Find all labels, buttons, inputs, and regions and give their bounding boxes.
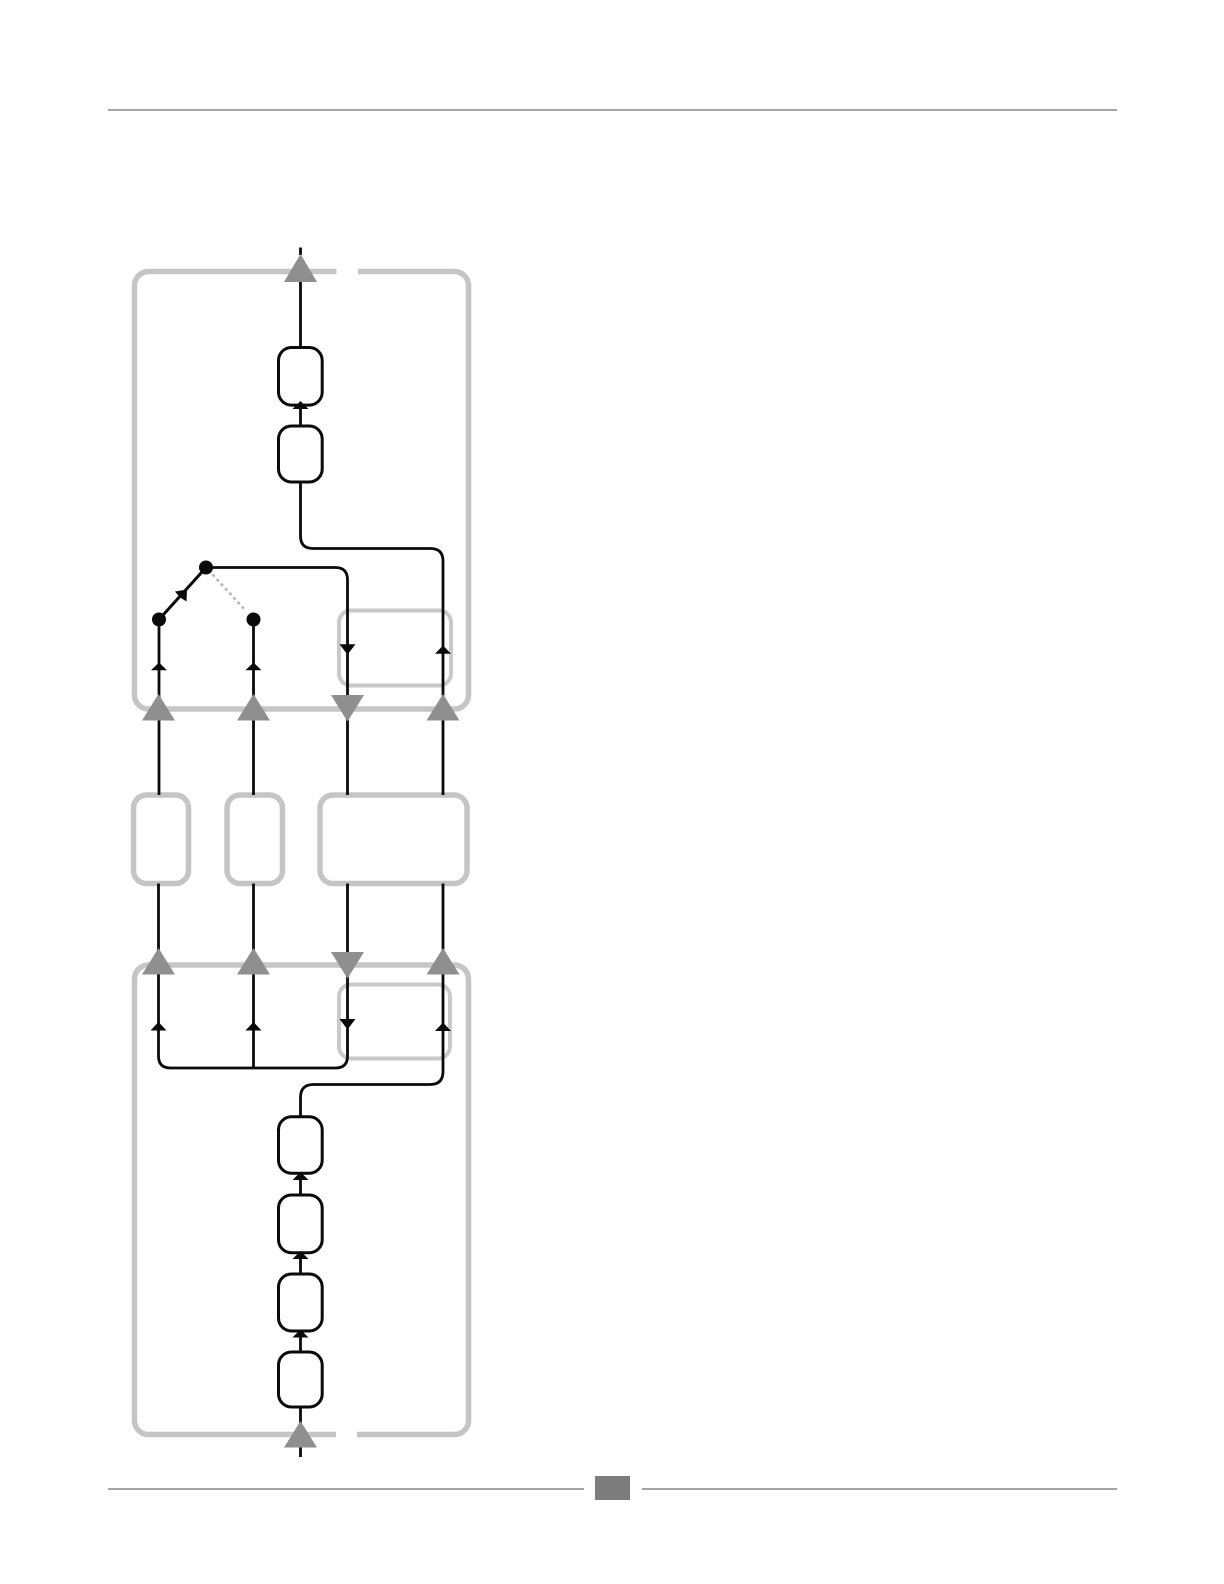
big arrow: output (top, up)	[284, 254, 317, 282]
big arrow: L2 up at preamp bottom border	[237, 694, 270, 721]
gap in top border of preamp container	[337, 264, 359, 278]
arrowhead up into CB1	[293, 1172, 309, 1180]
switch left contact dot	[152, 613, 166, 627]
box TB1 (top black box)	[279, 348, 323, 406]
wire: switch common to line L3 (fx send drop)	[206, 568, 348, 796]
big arrow: L3 down at preamp bottom border	[331, 695, 364, 722]
box CB2 (chain box 2)	[279, 1195, 323, 1253]
wire: line L1 from left contact down through container border	[158, 627, 161, 796]
header rule	[108, 109, 1117, 111]
loop box S1 (small grey box inside top container)	[339, 611, 451, 686]
arrowhead up into CB2	[293, 1251, 309, 1259]
big arrow: L1 up at power amp top border	[142, 948, 175, 975]
wire: L4 down from block C, left, down into chain box CB1	[301, 884, 444, 1118]
block A (middle-left grey box)	[134, 795, 189, 884]
big arrow: L3 down at power amp top border	[331, 952, 364, 979]
switch: dashed inactive throw to right contact	[213, 575, 247, 612]
big arrow: L1 up at preamp bottom border	[142, 694, 175, 721]
big arrow: input (bottom, up)	[284, 1421, 317, 1448]
switch right contact dot	[247, 613, 261, 627]
arrowhead up on L1 above border	[151, 663, 167, 671]
footer rule right segment	[642, 1488, 1117, 1490]
wire: CB4 down to input arrow and stub	[299, 1407, 302, 1457]
wire: line L2 from right contact down through container border	[252, 627, 255, 796]
arrowhead up on L2 inside power container	[246, 1022, 262, 1031]
arrowhead up on L1 inside power container	[151, 1022, 167, 1031]
block B (middle grey box)	[227, 795, 283, 884]
wire: TB2 down, right, down into line L4 (fx return riser)	[301, 482, 444, 795]
wire between CB3 and CB4	[299, 1331, 302, 1352]
arrowhead up on L4 inside loop box S2	[435, 1023, 451, 1032]
wire between CB1 and CB2	[299, 1173, 302, 1195]
container: power amp section (bottom grey rounded box)	[135, 965, 469, 1435]
arrowhead up on L4 inside loop box S1	[435, 646, 451, 654]
wire: top arrow base to box TB1	[299, 281, 302, 347]
wire: L1 down from block A, across, up to L3 below block C (U path)	[159, 884, 348, 1069]
footer rule left segment	[108, 1488, 584, 1490]
arrowhead down on L3 inside loop box S2	[340, 1019, 356, 1030]
box CB4 (chain box 4)	[279, 1352, 323, 1407]
footer page-number square	[595, 1476, 630, 1500]
wire: L2 down from block B to junction on U path	[252, 884, 255, 1069]
wire between CB2 and CB3	[299, 1253, 302, 1274]
gap in bottom border of power amp container	[336, 1428, 357, 1442]
arrowhead on switch throw (45 deg up-right)	[175, 590, 187, 602]
switch common contact dot	[199, 561, 213, 575]
arrowhead up into TB1	[293, 401, 309, 409]
box TB2 (second black box)	[279, 426, 323, 482]
wire: between TB1 and TB2	[299, 406, 302, 427]
loop box S2 (small grey box inside bottom container)	[339, 985, 450, 1059]
arrowhead up on L2 above border	[246, 663, 262, 671]
arrowhead up into CB3	[293, 1330, 309, 1338]
block C (middle-right wide grey box)	[320, 795, 467, 884]
big arrow: L4 up at preamp bottom border	[427, 694, 460, 721]
wire: output stub above top arrow	[299, 248, 302, 256]
container: preamp section (top grey rounded box)	[135, 272, 469, 710]
arrowhead down on L3 inside loop box S1	[340, 644, 356, 654]
box CB1 (chain box 1)	[279, 1117, 323, 1174]
switch: solid throw from left contact to common	[159, 568, 206, 620]
big arrow: L4 up at power amp top border	[427, 948, 460, 975]
big arrow: L2 up at power amp top border	[237, 948, 270, 975]
box CB3 (chain box 3)	[279, 1274, 323, 1331]
